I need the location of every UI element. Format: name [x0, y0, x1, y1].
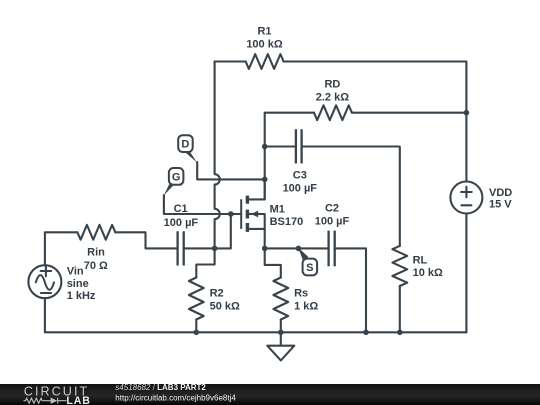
wire RD right: [352, 112, 467, 114]
junction S label attach: [296, 246, 302, 252]
wire R2 bottom: [195, 320, 197, 333]
junction source node: [262, 246, 268, 252]
svg-text:100 µF: 100 µF: [315, 216, 350, 228]
transistor M1 body arrow: [251, 211, 258, 218]
Vin minus sign: [41, 292, 51, 294]
svg-text:http://circuitlab.com/cejhb9v6: http://circuitlab.com/cejhb9v6e8tj4: [115, 394, 236, 403]
svg-text:15 V: 15 V: [489, 199, 512, 211]
svg-text:s4518682 / LAB3 PART2: s4518682 / LAB3 PART2: [115, 383, 206, 392]
svg-text:C2: C2: [325, 202, 339, 214]
svg-text:1 kHz: 1 kHz: [67, 290, 96, 302]
resistor R1: [246, 54, 284, 69]
svg-text:70 Ω: 70 Ω: [84, 260, 108, 272]
wire C1 right to gate node: [184, 214, 242, 248]
node label S: [298, 247, 317, 275]
wire R1 left vertical (gate bias column with hops): [215, 62, 220, 249]
svg-text:1 kΩ: 1 kΩ: [294, 301, 318, 313]
wire RL bottom: [399, 286, 401, 332]
junction D wire tee: [262, 177, 268, 183]
wire source to Rs jog: [265, 248, 281, 277]
wire D label stub: [197, 162, 265, 179]
resistor Rin: [77, 225, 115, 240]
resistor RD: [314, 105, 352, 120]
junction C2 bottom: [363, 330, 369, 336]
svg-text:C1: C1: [174, 203, 188, 215]
svg-text:100 µF: 100 µF: [164, 217, 199, 229]
svg-text:LAB: LAB: [66, 395, 91, 405]
wire RD left to drain column: [265, 113, 314, 200]
wire Vin top to Rin: [45, 232, 78, 265]
wire G label stub: [164, 195, 231, 214]
junction gate C1 node: [212, 246, 218, 252]
svg-text:100 kΩ: 100 kΩ: [246, 38, 283, 50]
svg-text:VDD: VDD: [489, 187, 512, 199]
svg-text:C3: C3: [293, 169, 307, 181]
wire R1 right to VDD rail: [284, 62, 467, 182]
wire bottom rail: [45, 331, 467, 333]
wire gate node to R2 jog: [196, 248, 214, 277]
svg-text:Rs: Rs: [294, 287, 308, 299]
transistor M1 gate bar: [240, 199, 242, 229]
svg-text:100 µF: 100 µF: [283, 183, 318, 195]
resistor Rs: [273, 278, 288, 320]
svg-text:Vin: Vin: [67, 266, 84, 278]
voltage source VDD circle: [450, 182, 482, 214]
Vin sine wave: [36, 275, 54, 290]
junction gate corner: [228, 211, 234, 217]
svg-text:S: S: [306, 262, 313, 274]
svg-text:10 kΩ: 10 kΩ: [413, 267, 443, 279]
transistor M1 source stub: [248, 229, 265, 249]
VDD plus sign: [461, 187, 472, 198]
ground symbol: [267, 332, 294, 360]
Vin plus sign: [41, 266, 52, 277]
transistor M1 channel segments: [246, 196, 249, 232]
VDD minus sign: [461, 204, 471, 206]
svg-text:R1: R1: [257, 26, 271, 38]
resistor R2: [189, 278, 204, 320]
voltage source Vin circle: [28, 265, 61, 298]
wire VDD bottom to ground rail: [465, 214, 467, 333]
resistor RL: [392, 246, 407, 286]
junction RL bottom: [397, 330, 403, 336]
junction R2 bottom: [194, 330, 200, 336]
junction top right rail: [464, 110, 470, 116]
svg-text:R2: R2: [210, 287, 224, 299]
svg-text:50 kΩ: 50 kΩ: [210, 301, 240, 313]
footer bar: [0, 384, 540, 405]
node label G: [164, 168, 184, 195]
svg-text:Rin: Rin: [87, 247, 105, 259]
junction C3 left tee: [262, 144, 268, 150]
wire Vin bottom: [44, 298, 46, 332]
capacitor C2 plates: [329, 231, 335, 267]
node label D: [178, 135, 197, 162]
wire Rs bottom: [280, 320, 282, 333]
footer logo resistor squiggle and diode: [24, 398, 67, 404]
svg-text:sine: sine: [67, 278, 89, 290]
capacitor C1 plates: [178, 231, 184, 265]
svg-text:RD: RD: [324, 78, 340, 90]
capacitor C3 plates: [296, 129, 302, 163]
wire Rin right to C1: [115, 232, 177, 248]
svg-text:G: G: [172, 171, 181, 183]
junction Rs bottom: [278, 330, 284, 336]
transistor M1 drain stub: [248, 179, 265, 199]
transistor M1 body wire: [249, 214, 265, 229]
wire C2 right down to rail: [335, 248, 366, 332]
svg-text:RL: RL: [413, 255, 428, 267]
svg-text:D: D: [181, 139, 189, 151]
wire C3 right to RL: [302, 147, 400, 246]
wire R1 top left: [215, 60, 246, 62]
wire C3 left: [265, 145, 296, 147]
svg-text:2.2 kΩ: 2.2 kΩ: [316, 91, 349, 103]
wire source rail to C2: [265, 247, 329, 249]
svg-text:M1: M1: [270, 203, 285, 215]
svg-text:BS170: BS170: [270, 216, 304, 228]
